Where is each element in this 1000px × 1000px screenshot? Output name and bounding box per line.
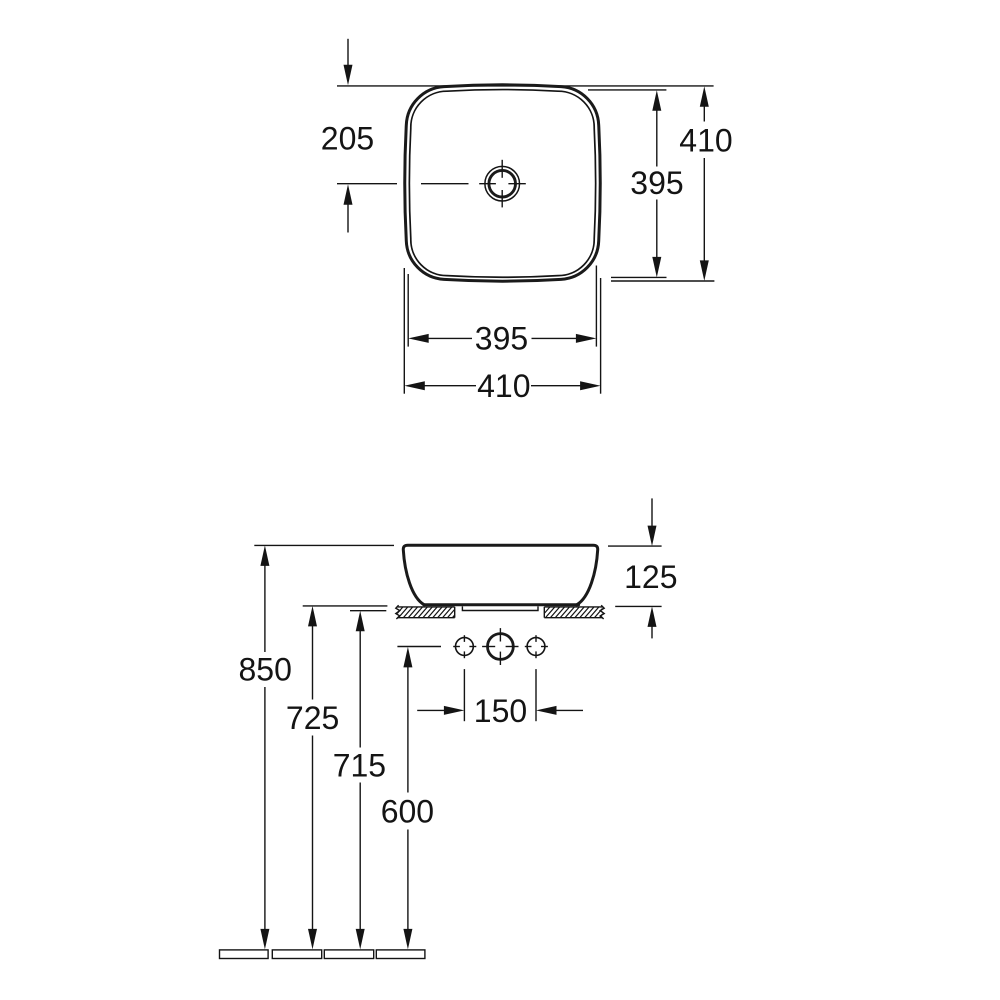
basin outer outline (top view): [405, 85, 601, 281]
dim 725 line upper segment: [312, 626, 314, 700]
dim 850 top arrowhead: [260, 545, 269, 566]
ext line inner left (395 width): [407, 274, 409, 347]
dim 600 top extension line: [397, 646, 441, 648]
dim 410v lower arrowhead: [700, 260, 709, 281]
dim 715 top arrowhead: [356, 611, 365, 632]
dim 125 bottom extension line: [615, 605, 661, 607]
dim 850 bottom arrowhead: [260, 929, 269, 950]
dim 410h line left segment: [425, 385, 477, 387]
dim 850 top extension line: [254, 544, 394, 546]
dim 125 top extension line: [608, 545, 662, 547]
basin horizontal centerline dash: [421, 183, 469, 185]
dim 395v line upper segment: [656, 110, 658, 167]
right hole crosshair top stub: [535, 635, 537, 642]
svg-text:410: 410: [679, 122, 732, 158]
dim 850 line upper segment: [264, 566, 266, 653]
svg-text:205: 205: [321, 120, 374, 156]
dim 725 bottom arrowhead: [308, 929, 317, 950]
dim 125 lower arrowhead: [648, 606, 657, 627]
floor reference bar segment 3: [324, 950, 373, 959]
faucet hole right (small circle): [527, 638, 545, 656]
dim 125 upper arrowhead: [648, 526, 657, 547]
countertop right break zigzag: [600, 605, 604, 619]
dim 410h right arrowhead: [580, 381, 601, 390]
svg-text:125: 125: [624, 559, 677, 595]
dim 150 left extension line: [463, 669, 465, 721]
left hole crosshair left stub: [453, 646, 460, 648]
dim 410v line lower segment: [703, 158, 705, 261]
basin profile (side view): [403, 545, 597, 605]
dim 600 top arrowhead: [403, 647, 412, 668]
inner rim top extension line (395 reference): [588, 89, 666, 91]
drain inner circle: [489, 170, 516, 197]
svg-text:715: 715: [333, 747, 386, 783]
dim 125 lower arrow tail: [651, 627, 653, 639]
center hole crosshair left stub: [482, 646, 495, 648]
drain crosshair bottom stub: [501, 190, 503, 207]
svg-text:150: 150: [474, 693, 527, 729]
dim 715 bottom arrowhead: [356, 929, 365, 950]
floor reference bar segment 2: [272, 950, 321, 959]
dim 205 lower arrow tail: [347, 205, 349, 233]
dim 395v bottom extension line: [611, 276, 667, 278]
svg-text:725: 725: [286, 700, 339, 736]
center hole crosshair top stub: [499, 628, 501, 641]
dim 410v upper arrowhead: [700, 86, 709, 107]
countertop right bottom line: [544, 617, 602, 619]
faucet hole center (large circle): [488, 634, 514, 660]
dim 395v lower arrowhead: [652, 257, 661, 278]
dim 600 bottom arrowhead: [403, 929, 412, 950]
dim 410h line right segment: [531, 385, 581, 387]
dim 395h left arrowhead: [408, 334, 429, 343]
ext line outer right (410 width): [600, 278, 602, 394]
right hole crosshair right stub: [541, 646, 548, 648]
countertop left break zigzag: [396, 605, 400, 619]
center hole crosshair bottom stub: [499, 652, 501, 665]
countertop left hatching: [392, 605, 469, 620]
left hole crosshair bottom stub: [463, 651, 465, 658]
left hole crosshair right stub: [469, 646, 476, 648]
countertop left bottom line: [397, 617, 454, 619]
drain crosshair right stub: [508, 183, 525, 185]
svg-text:600: 600: [381, 793, 434, 829]
drain crosshair top stub: [501, 160, 503, 178]
faucet hole left (small circle): [456, 638, 474, 656]
drain crosshair left stub: [479, 183, 496, 185]
dim 150 right arrowhead: [536, 706, 557, 715]
countertop left top line: [397, 606, 454, 608]
dim 150 left arrowhead: [444, 706, 465, 715]
dim 395v line lower segment: [656, 200, 658, 258]
ext line outer left (410 width): [403, 268, 405, 394]
dim 715 top extension line: [350, 610, 386, 612]
dim 410v line upper segment: [703, 106, 705, 122]
dim 125 upper arrow tail: [651, 498, 653, 526]
countertop right left edge: [543, 607, 545, 618]
basin foot recess outline: [462, 606, 538, 610]
dim 150 right extension line: [535, 669, 537, 721]
dim 600 line upper segment: [407, 667, 409, 793]
dim 725 top arrowhead: [308, 606, 317, 627]
dim 205 lower reference line: [337, 183, 397, 185]
svg-text:395: 395: [475, 321, 528, 357]
floor reference bar segment 1: [220, 950, 269, 959]
basin inner outline (top view): [409, 90, 595, 278]
dim 850 line lower segment: [264, 687, 266, 929]
center hole crosshair right stub: [506, 646, 519, 648]
right hole crosshair left stub: [525, 646, 532, 648]
countertop right hatching: [539, 605, 616, 620]
countertop left right edge: [454, 607, 456, 618]
dim 205 upper arrowhead: [344, 65, 353, 86]
dim 410v bottom extension line: [611, 280, 714, 282]
svg-text:395: 395: [630, 165, 683, 201]
dim 410h left arrowhead: [404, 381, 425, 390]
top rim extension line (205/410 reference, top edge of basin): [337, 85, 714, 87]
dim 150 left tail: [417, 709, 444, 711]
dim 205 upper arrow tail: [347, 39, 349, 66]
countertop right top line: [544, 606, 602, 608]
dim 205 lower arrowhead: [344, 184, 353, 205]
dim 395h line right segment: [532, 337, 577, 339]
dim 600 line lower segment: [407, 830, 409, 930]
svg-text:410: 410: [477, 368, 530, 404]
dim 395v upper arrowhead: [652, 90, 661, 111]
drain outer circle: [485, 166, 520, 201]
dim 715 line upper segment: [359, 631, 361, 748]
right hole crosshair bottom stub: [535, 651, 537, 658]
basin bottom line (side view): [424, 603, 579, 606]
dim 395h right arrowhead: [576, 334, 597, 343]
svg-text:850: 850: [239, 652, 292, 688]
left hole crosshair top stub: [463, 635, 465, 642]
dim 725 top extension line: [303, 605, 388, 607]
dim 150 right tail: [556, 709, 583, 711]
dim 725 line lower segment: [312, 736, 314, 930]
ext line inner right (395 width): [595, 266, 597, 347]
floor reference bar segment 4: [376, 950, 425, 959]
dim 715 line lower segment: [359, 783, 361, 930]
dim 395h line left segment: [429, 337, 473, 339]
